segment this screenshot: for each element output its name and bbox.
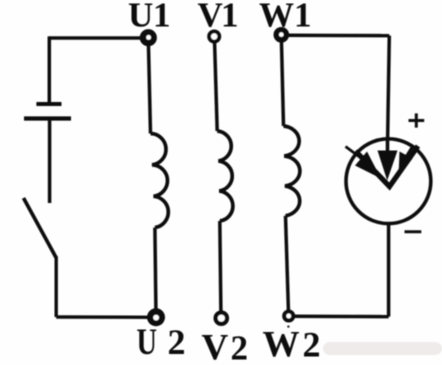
wire meter bottom bbox=[387, 224, 391, 317]
svg-text:V: V bbox=[198, 0, 223, 35]
galvanometer meter body bbox=[346, 139, 431, 224]
wire left vertical to battery bbox=[48, 36, 52, 102]
battery short plate (negative) bbox=[36, 102, 61, 106]
wire switch to bottom bbox=[55, 257, 58, 318]
meter arrow right bbox=[399, 145, 414, 177]
winding U (coil) bbox=[151, 134, 169, 228]
winding W (coil) bbox=[284, 126, 300, 216]
watermark smudge bbox=[323, 342, 442, 355]
label V1 bbox=[198, 0, 239, 35]
svg-text:V: V bbox=[202, 328, 229, 365]
svg-text:1: 1 bbox=[221, 0, 239, 35]
wire W1 down to coil bbox=[281, 35, 283, 126]
svg-text:2: 2 bbox=[231, 329, 249, 365]
svg-text:U: U bbox=[137, 322, 158, 363]
label W2 bbox=[263, 325, 321, 365]
plus sign bbox=[409, 113, 425, 127]
wire coil V to V2 bbox=[220, 221, 221, 312]
label W1 bbox=[259, 0, 312, 35]
meter needle V bbox=[356, 146, 419, 187]
winding V (coil) bbox=[217, 131, 233, 221]
switch blade (open) bbox=[24, 198, 57, 258]
battery long plate (positive) bbox=[24, 116, 71, 120]
meter arrow middle bbox=[378, 140, 398, 181]
terminal U2 bbox=[147, 308, 165, 326]
wire W1 to top-right corner bbox=[281, 34, 389, 38]
terminal W1 bbox=[274, 27, 290, 43]
svg-text:2: 2 bbox=[168, 322, 186, 362]
svg-text:1: 1 bbox=[153, 0, 171, 35]
wire U1 to left bbox=[49, 36, 148, 40]
wire coil W to W2 bbox=[286, 216, 289, 313]
stray ink dot bbox=[287, 325, 289, 327]
terminal V1 bbox=[209, 31, 219, 41]
svg-text:W: W bbox=[263, 325, 300, 365]
wire U1 down to coil bbox=[148, 38, 150, 134]
label U1 bbox=[128, 0, 171, 35]
label U2 bbox=[137, 322, 186, 363]
terminal W2 bbox=[284, 312, 293, 321]
minus sign bbox=[405, 230, 422, 233]
svg-text:1: 1 bbox=[294, 0, 312, 35]
terminal U1 bbox=[140, 29, 157, 46]
wire bottom-right to W2 bbox=[289, 314, 389, 318]
wire right vertical to meter bbox=[388, 36, 390, 140]
wire battery to switch bbox=[48, 119, 52, 204]
label V2 bbox=[202, 328, 249, 365]
wire coil U to U2 bbox=[155, 228, 156, 317]
svg-text:2: 2 bbox=[303, 325, 321, 365]
terminal V2 bbox=[216, 313, 227, 324]
wire V1 down to coil bbox=[214, 37, 217, 132]
meter arrow left bbox=[346, 147, 382, 179]
wire bottom-left to U2 bbox=[56, 315, 156, 319]
